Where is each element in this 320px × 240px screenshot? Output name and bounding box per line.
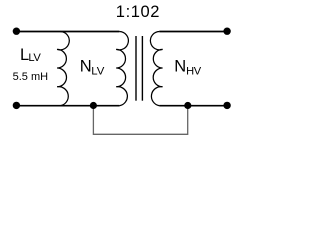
svg-text:LV: LV (91, 66, 104, 78)
transformer core line right (141, 36, 143, 101)
transformer secondary N_HV coil (150, 32, 162, 106)
node: HV- terminal dot (223, 102, 230, 109)
svg-text:1:102: 1:102 (116, 3, 160, 21)
junction dot LV bottom (90, 102, 97, 109)
junction dot HV bottom (184, 102, 191, 109)
node: HV+ terminal dot (223, 28, 230, 35)
node: LV+ terminal dot (13, 28, 20, 35)
wire: LV bottom (left terminal to N_LV bottom) (16, 105, 119, 107)
svg-text:N: N (174, 58, 186, 76)
svg-text:5.5 mH: 5.5 mH (13, 71, 49, 83)
transformer core line left (135, 36, 137, 101)
svg-text:N: N (80, 58, 92, 76)
svg-text:LV: LV (28, 52, 41, 64)
wire: HV top (N_HV top to right terminal) (159, 31, 227, 33)
transformer primary N_LV coil (116, 32, 128, 106)
wire: LV top (left terminal to N_LV top) (16, 31, 119, 33)
wire: HV bottom (N_HV bottom to right terminal) (159, 105, 227, 107)
wire: ground return link (gray U) (93, 106, 187, 135)
svg-text:HV: HV (186, 65, 202, 77)
node: LV- terminal dot (13, 102, 20, 109)
inductor L_LV coil (57, 32, 69, 106)
